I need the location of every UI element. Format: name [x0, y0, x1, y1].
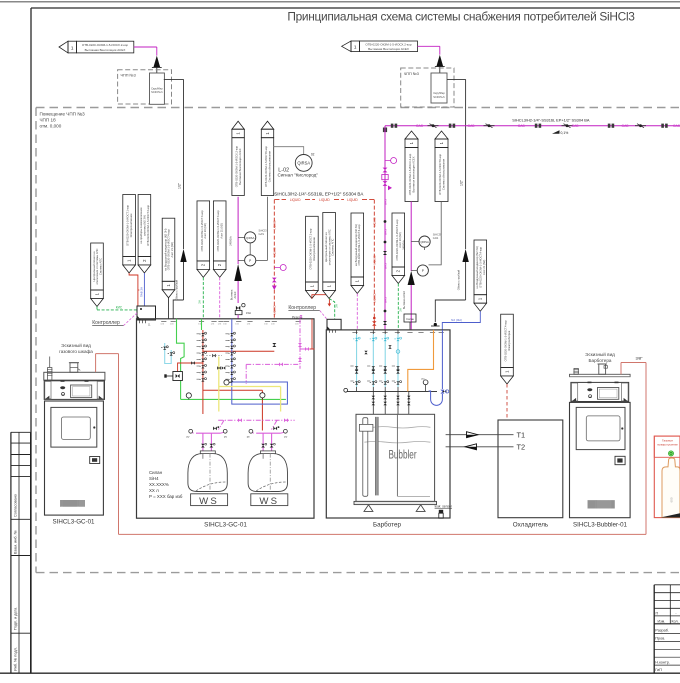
svg-text:GAS: GAS: [416, 124, 424, 128]
svg-text:Система АПС: Система АПС: [99, 258, 103, 275]
svg-text:А: А: [312, 289, 316, 291]
svg-text:РУ: РУ: [224, 436, 228, 439]
svg-text:LIQUID: LIQUID: [273, 247, 277, 256]
svg-text:GAS: GAS: [384, 199, 388, 205]
svg-text:1: 1: [354, 45, 357, 50]
svg-text:T2: T2: [517, 443, 526, 452]
svg-text:Азот 21 (N2): Азот 21 (N2): [482, 260, 486, 275]
svg-text:на Воздушный конденсор (N2 ЗН): на Воздушный конденсор (N2 ЗН): [163, 229, 167, 271]
svg-text:WS: WS: [259, 496, 279, 507]
svg-text:1/4t: 1/4t: [211, 323, 215, 326]
svg-text:Эскизный вид: Эскизный вид: [61, 342, 91, 348]
svg-text:системы (N2 ЗН): системы (N2 ЗН): [143, 215, 147, 236]
svg-text:ХХ.ХХХ%: ХХ.ХХХ%: [149, 482, 169, 487]
svg-text:Вытяжная Вентиляция АСЕХ: Вытяжная Вентиляция АСЕХ: [368, 47, 409, 51]
svg-text:1/2": 1/2": [460, 179, 464, 186]
svg-text:Вытяжная Вентиляция АСЕХ: Вытяжная Вентиляция АСЕХ: [238, 148, 242, 185]
svg-text:SiH4: SiH4: [149, 476, 159, 481]
svg-text:SIHCL3-GC-01: SIHCL3-GC-01: [53, 519, 96, 526]
svg-text:SCR.PL/1: SCR.PL/1: [151, 90, 163, 94]
svg-text:Электроснабжение: Электроснабжение: [312, 237, 316, 261]
svg-text:ОТВ-0220-ОКЗМ-1-5-ИОСТ.6-кор: ОТВ-0220-ОКЗМ-1-5-ИОСТ.6-кор: [438, 154, 442, 196]
svg-text:Согласовано: Согласовано: [14, 494, 18, 517]
svg-text:1/4t: 1/4t: [247, 323, 251, 326]
svg-text:ЧПП 1б: ЧПП 1б: [40, 118, 56, 123]
svg-text:Р = ХХХ бар изб: Р = ХХХ бар изб: [149, 494, 183, 499]
svg-text:Охладитель: Охладитель: [513, 522, 549, 529]
svg-text:Эскизный вид: Эскизный вид: [585, 351, 615, 357]
svg-text:ОТВ-0220-ОКЗМ-1-5-ИОСТ.4-кор: ОТВ-0220-ОКЗМ-1-5-ИОСТ.4-кор: [479, 246, 483, 288]
svg-text:ОТВ-0220-ОКЗМ-1-5-ИОСТ.4-кор: ОТВ-0220-ОКЗМ-1-5-ИОСТ.4-кор: [395, 219, 399, 261]
svg-text:РУ: РУ: [284, 436, 288, 439]
svg-text:ЧПП №3: ЧПП №3: [404, 72, 419, 76]
svg-text:Барботер: Барботер: [373, 521, 401, 529]
svg-text:GAS: GAS: [572, 124, 580, 128]
svg-text:Взам. инб. №: Взам. инб. №: [14, 530, 18, 554]
svg-text:ОТВ-0220-ОКЗМ-1-5-ИОСТ.4-кор: ОТВ-0220-ОКЗМ-1-5-ИОСТ.4-кор: [357, 224, 361, 266]
svg-text:ПАВ ЗН: ПАВ ЗН: [140, 287, 144, 297]
svg-text:отключение от системы АПС: отключение от системы АПС: [95, 248, 99, 284]
svg-text:ЗН: ЗН: [399, 308, 403, 312]
svg-text:Помещение ЧПП №3: Помещение ЧПП №3: [40, 112, 86, 117]
svg-text:ОТВ-0220-ОКЗМ-1-5-ИОСТ.4-кор: ОТВ-0220-ОКЗМ-1-5-ИОСТ.4-кор: [200, 210, 204, 252]
svg-text:Инб. № подл.: Инб. № подл.: [14, 647, 18, 671]
svg-text:1/4t: 1/4t: [295, 323, 299, 326]
svg-text:SIHCL3/H2-1/4"-SS316L EP+1/2": SIHCL3/H2-1/4"-SS316L EP+1/2" SS304 BA: [512, 117, 590, 122]
svg-text:Скруббер: Скруббер: [151, 87, 163, 91]
svg-text:24В/Ф/х: 24В/Ф/х: [229, 236, 233, 246]
svg-text:600: 600: [669, 497, 673, 502]
svg-text:Азот 30 (N2): Азот 30 (N2): [203, 223, 207, 238]
svg-text:GAS: GAS: [622, 124, 630, 128]
svg-text:Вытяжная Вентиляция АСЕХ: Вытяжная Вентиляция АСЕХ: [85, 48, 126, 52]
svg-text:Электроснабжение: Электроснабжение: [129, 213, 133, 237]
svg-text:ОТВ-0220-ОКЗМ-1-5-ИОСТ.1-кор: ОТВ-0220-ОКЗМ-1-5-ИОСТ.1-кор: [126, 205, 130, 247]
svg-text:LIQUID: LIQUID: [373, 255, 377, 264]
svg-text:ОТВ-0220-ОКЗМ-1-5-ИОСТ.4-кор: ОТВ-0220-ОКЗМ-1-5-ИОСТ.4-кор: [167, 229, 171, 271]
svg-text:GAS: GAS: [518, 124, 526, 128]
svg-text:Центральный сигнал на: Центральный сигнал на: [92, 251, 96, 281]
svg-text:ЧПП №3: ЧПП №3: [121, 74, 136, 78]
svg-text:SIHCL3-GC-01: SIHCL3-GC-01: [204, 522, 247, 529]
svg-text:ОТВ-0220-ОКЗМ-1-5-ИОСХ.2-кор: ОТВ-0220-ОКЗМ-1-5-ИОСХ.2-кор: [408, 153, 412, 195]
svg-text:GAS: GAS: [468, 124, 476, 128]
svg-text:QIRSA: QIRSA: [246, 236, 255, 240]
svg-text:ОТВ-0220-ОКЗМ-1-5-ИОСТ.4-кор: ОТВ-0220-ОКЗМ-1-5-ИОСТ.4-кор: [216, 210, 220, 252]
svg-text:ОТВ-0220-ОКЗМ-1-5-ИОСТ.4-кор: ОТВ-0220-ОКЗМ-1-5-ИОСТ.4-кор: [146, 205, 150, 247]
svg-text:1/4t: 1/4t: [271, 323, 275, 326]
svg-text:Кол.: Кол.: [672, 619, 679, 623]
svg-text:1/4t: 1/4t: [170, 323, 174, 326]
svg-text:Н.контр.: Н.контр.: [655, 660, 670, 664]
svg-text:пожаротушение: пожаротушение: [657, 443, 678, 447]
svg-text:GAS: GAS: [384, 229, 388, 235]
svg-text:отключение от системы АПС: отключение от системы АПС: [327, 229, 331, 265]
svg-text:GAS: GAS: [433, 236, 439, 240]
svg-text:РУ: РУ: [247, 436, 251, 439]
svg-text:Азот 21 (N2): Азот 21 (N2): [170, 242, 174, 257]
svg-text:N2 (ЗН): N2 (ЗН): [451, 318, 462, 322]
svg-text:1: 1: [71, 46, 74, 51]
svg-text:3/8": 3/8": [636, 356, 644, 361]
svg-text:Силан: Силан: [406, 317, 414, 321]
svg-text:Разраб.: Разраб.: [655, 629, 669, 633]
svg-text:SCR.PL/1: SCR.PL/1: [433, 95, 445, 99]
svg-text:LIQUID: LIQUID: [347, 198, 358, 202]
svg-text:на Воздушный конденсор (N2 ЗН): на Воздушный конденсор (N2 ЗН): [354, 224, 358, 266]
svg-text:Bubbler: Bubbler: [388, 449, 417, 462]
svg-text:на приборы пневмоклапанов: на приборы пневмоклапанов: [139, 207, 143, 244]
svg-text:1/4t: 1/4t: [160, 323, 164, 326]
svg-text:1/4t: 1/4t: [235, 323, 239, 326]
svg-text:на Воздушный конденсор (N2 ЗН): на Воздушный конденсор (N2 ЗН): [475, 246, 479, 288]
svg-text:1/4t: 1/4t: [264, 323, 268, 326]
svg-text:24В/Ф/х: 24В/Ф/х: [401, 240, 405, 250]
svg-text:1/4t: 1/4t: [223, 323, 227, 326]
svg-text:Вытяжка АСЕХ: Вытяжка АСЕХ: [402, 291, 406, 310]
svg-text:leak_sensor: leak_sensor: [435, 505, 453, 509]
svg-text:ОТВ-0220-ОКЗМ-1-5-ИОСХ.2-кор: ОТВ-0220-ОКЗМ-1-5-ИОСХ.2-кор: [82, 43, 129, 47]
svg-text:РУ: РУ: [187, 436, 191, 439]
svg-text:АСЕХ: АСЕХ: [233, 291, 237, 298]
svg-text:Скруббер: Скруббер: [433, 91, 445, 95]
svg-text:Обвяз с трубкой: Обвяз с трубкой: [457, 269, 461, 290]
svg-text:газового шкафа: газового шкафа: [59, 349, 93, 354]
svg-text:02: 02: [311, 152, 315, 156]
svg-text:Пров.: Пров.: [655, 637, 665, 641]
svg-text:LIQUID: LIQUID: [373, 293, 377, 302]
svg-text:ОТВ-0220-ОКЗМ-1-5-ИОСТ.4-кор: ОТВ-0220-ОКЗМ-1-5-ИОСТ.4-кор: [504, 320, 508, 362]
svg-text:LIQUID: LIQUID: [319, 198, 330, 202]
svg-text:отм. 0,000: отм. 0,000: [40, 124, 62, 129]
svg-text:ОТВ-0220-ОКЗМ-1-5-ИОСТ.1-кор: ОТВ-0220-ОКЗМ-1-5-ИОСТ.1-кор: [308, 228, 312, 270]
svg-text:SIHCL3/H2-1/4"-SS316L EP+1/2": SIHCL3/H2-1/4"-SS316L EP+1/2" SS304 BA: [274, 192, 363, 197]
svg-text:Электрообогрев: Электрообогрев: [507, 330, 511, 351]
svg-text:GAS: GAS: [384, 263, 388, 269]
svg-text:Принципиальная схема системы с: Принципиальная схема системы снабжения п…: [287, 10, 635, 24]
svg-text:Система обеспыливания: Система обеспыливания: [441, 158, 445, 190]
svg-text:LIQUID: LIQUID: [273, 305, 277, 314]
svg-text:Система обеспыливания: Система обеспыливания: [267, 150, 271, 182]
svg-text:Подп. и дата: Подп. и дата: [14, 607, 18, 630]
svg-text:Силан: Силан: [149, 470, 163, 475]
svg-text:Изм.: Изм.: [658, 619, 666, 623]
svg-text:LIQUID: LIQUID: [373, 217, 377, 226]
svg-text:ОТВ-0220-ОКЗМ-1-5-ИОСХ.2-кор: ОТВ-0220-ОКЗМ-1-5-ИОСХ.2-кор: [235, 145, 239, 187]
svg-text:GAS: GAS: [384, 297, 388, 303]
svg-text:КИС: КИС: [116, 305, 123, 309]
svg-text:SIHCL3-Bubbler-01: SIHCL3-Bubbler-01: [573, 522, 628, 529]
svg-text:15Н: 15Н: [246, 311, 251, 315]
svg-text:Контроллер: Контроллер: [288, 305, 316, 311]
svg-text:ЗН: ЗН: [335, 304, 339, 308]
svg-text:ЗН: ЗН: [198, 300, 202, 304]
svg-text:P: P: [249, 259, 251, 263]
svg-text:LIQUID: LIQUID: [290, 198, 301, 202]
svg-text:ОТВ-0220-ОКЗМ-1-5-ИОСТ.6-кор: ОТВ-0220-ОКЗМ-1-5-ИОСТ.6-кор: [264, 146, 268, 188]
svg-text:QIRSA: QIRSA: [420, 240, 429, 244]
svg-text:ХХ л: ХХ л: [149, 488, 159, 493]
svg-text:П: П: [656, 611, 659, 615]
svg-text:WS: WS: [199, 496, 219, 507]
svg-text:Система АПС: Система АПС: [331, 239, 335, 256]
svg-text:1/4t: 1/4t: [218, 323, 222, 326]
svg-text:P: P: [422, 269, 424, 273]
svg-text:QIRSA: QIRSA: [297, 161, 310, 166]
svg-text:0,1%: 0,1%: [561, 131, 569, 135]
svg-text:GAS: GAS: [259, 232, 265, 236]
svg-text:T1: T1: [517, 430, 526, 439]
svg-text:Контроллер: Контроллер: [92, 320, 120, 326]
svg-text:Сигнал "Кислород": Сигнал "Кислород": [278, 173, 319, 178]
svg-text:Центральный сигнал на: Центральный сигнал на: [324, 232, 328, 262]
svg-text:GAS: GAS: [673, 124, 680, 128]
svg-text:1/2": 1/2": [178, 182, 182, 189]
svg-text:Вытяжная вентиляция АСЕХ: Вытяжная вентиляция АСЕХ: [411, 156, 415, 192]
svg-text:LIQUID: LIQUID: [273, 220, 277, 229]
svg-text:ГиП: ГиП: [655, 668, 662, 672]
svg-text:Барботера: Барботера: [589, 358, 612, 363]
svg-text:Азот 21 (N2): Азот 21 (N2): [220, 223, 224, 238]
svg-text:ОТВ-0220-ОКЗМ-1-5-ИОСХ.2-кор: ОТВ-0220-ОКЗМ-1-5-ИОСХ.2-кор: [365, 43, 412, 47]
